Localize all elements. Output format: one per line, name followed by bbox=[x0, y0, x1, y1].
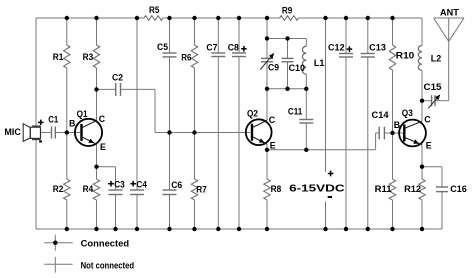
svg-text:R4: R4 bbox=[83, 184, 94, 194]
svg-text:R9: R9 bbox=[282, 5, 292, 15]
svg-text:C: C bbox=[424, 114, 431, 124]
svg-text:C16: C16 bbox=[450, 184, 467, 194]
svg-text:R7: R7 bbox=[196, 184, 207, 194]
svg-text:MIC: MIC bbox=[4, 127, 21, 137]
svg-text:C: C bbox=[99, 114, 106, 124]
svg-text:C8: C8 bbox=[228, 43, 239, 53]
svg-text:C11: C11 bbox=[288, 106, 302, 116]
svg-text:R5: R5 bbox=[149, 5, 159, 15]
svg-text:C7: C7 bbox=[206, 43, 217, 53]
svg-text:C9: C9 bbox=[268, 63, 279, 73]
svg-text:L1: L1 bbox=[314, 58, 325, 68]
svg-text:C2: C2 bbox=[112, 72, 123, 82]
svg-text:B: B bbox=[394, 120, 400, 130]
svg-text:E: E bbox=[100, 142, 106, 152]
svg-text:R8: R8 bbox=[271, 184, 282, 194]
svg-text:C10: C10 bbox=[289, 63, 306, 73]
svg-text:L2: L2 bbox=[431, 53, 442, 63]
svg-text:6-15VDC: 6-15VDC bbox=[289, 183, 345, 194]
svg-text:R3: R3 bbox=[83, 52, 94, 62]
svg-text:C5: C5 bbox=[157, 42, 168, 52]
svg-text:Q2: Q2 bbox=[247, 108, 258, 118]
svg-text:C12: C12 bbox=[328, 43, 345, 53]
svg-text:C4: C4 bbox=[136, 179, 147, 189]
svg-text:R1: R1 bbox=[53, 52, 64, 62]
svg-text:R2: R2 bbox=[53, 184, 64, 194]
svg-text:C6: C6 bbox=[171, 180, 182, 190]
svg-text:Q3: Q3 bbox=[402, 108, 413, 118]
svg-text:C15: C15 bbox=[424, 82, 442, 92]
svg-text:C3: C3 bbox=[114, 179, 125, 189]
svg-text:E: E bbox=[426, 140, 432, 150]
svg-text:R11: R11 bbox=[375, 184, 392, 194]
svg-text:E: E bbox=[270, 140, 276, 150]
svg-text:Not connected: Not connected bbox=[81, 261, 135, 271]
svg-text:R6: R6 bbox=[181, 52, 191, 62]
svg-text:C13: C13 bbox=[369, 43, 386, 53]
svg-text:C: C bbox=[269, 115, 276, 125]
svg-text:Connected: Connected bbox=[81, 238, 130, 248]
svg-text:ANT: ANT bbox=[440, 8, 459, 18]
svg-text:R10: R10 bbox=[396, 50, 415, 60]
svg-text:C1: C1 bbox=[48, 115, 58, 125]
svg-text:Q1: Q1 bbox=[77, 109, 88, 119]
svg-text:R12: R12 bbox=[404, 184, 421, 194]
svg-text:B: B bbox=[69, 118, 75, 128]
svg-text:C14: C14 bbox=[372, 110, 389, 120]
